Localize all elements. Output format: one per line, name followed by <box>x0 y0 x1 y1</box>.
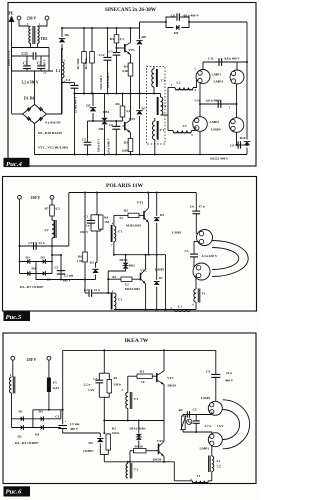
svg-text:0,33: 0,33 <box>53 386 59 390</box>
diode D6 (2) <box>43 271 46 276</box>
svg-text:T'1: T'1 <box>162 104 167 108</box>
svg-text:C8: C8 <box>109 123 113 127</box>
svg-text:R2 330k: R2 330k <box>84 58 88 69</box>
lamp LMP1 top end (2) <box>196 233 199 235</box>
resistor R3 <box>122 133 133 155</box>
inductor L1 (3) <box>209 445 221 481</box>
wire from right terminal to TR1 <box>38 20 48 26</box>
bottom rail (2) <box>114 309 196 311</box>
resistor R6 <box>115 93 130 122</box>
resistor R5 PTC (3) <box>179 408 186 432</box>
svg-text:T'1: T'1 <box>118 230 123 234</box>
svg-text:L1: L1 <box>217 459 221 463</box>
svg-text:C13: C13 <box>22 52 28 56</box>
wire filter right <box>48 48 50 72</box>
lamp tube outline (3) <box>223 400 250 449</box>
resistor R3 (3) <box>128 370 157 384</box>
svg-text:2,7 n: 2,7 n <box>205 424 212 428</box>
VT2 emitter wire (3) <box>163 457 165 462</box>
wire lamp4 bottom <box>236 132 238 145</box>
svg-text:DIAC: DIAC <box>120 258 129 262</box>
wire VT1 collector <box>130 28 132 43</box>
svg-text:D8: D8 <box>142 35 147 39</box>
svg-text:LMP1: LMP1 <box>201 396 211 400</box>
rail jog <box>139 22 141 28</box>
wire T1 II to L-node <box>161 114 169 116</box>
svg-text:R1 330k: R1 330k <box>76 58 80 69</box>
inductor L2 <box>168 81 198 90</box>
svg-text:L2: L2 <box>45 228 49 232</box>
svg-text:10: 10 <box>141 380 145 384</box>
T1 winding II <box>157 94 167 116</box>
svg-text:230 V: 230 V <box>27 16 37 21</box>
svg-text:MJE13001: MJE13001 <box>126 224 142 228</box>
frame of Рис.6 schematic <box>3 333 256 484</box>
capacitor C4 electrolytic <box>66 78 79 155</box>
bottom minus rail (2) <box>36 274 96 280</box>
transformer T''1 (3) <box>126 462 139 479</box>
inductor L1 <box>56 49 66 114</box>
wire lamp3-lamp4 column <box>236 84 238 118</box>
svg-text:TR1: TR1 <box>41 37 48 41</box>
divider out (3) <box>100 454 108 456</box>
svg-text:POLARIS 11W: POLARIS 11W <box>106 183 144 189</box>
left top rail riser (3) <box>62 350 64 409</box>
diode D10 <box>244 142 250 146</box>
svg-text:R7: R7 <box>44 207 48 211</box>
svg-text:R1: R1 <box>112 275 116 279</box>
svg-text:IKEA 7W: IKEA 7W <box>125 338 149 344</box>
svg-text:150 k: 150 k <box>112 431 120 435</box>
svg-text:0,68: 0,68 <box>122 69 128 73</box>
transistor VT2 (3) <box>153 439 164 461</box>
wire bridge to C1 node (2) <box>52 254 61 256</box>
svg-text:DB3: DB3 <box>99 127 106 131</box>
svg-text:L3: L3 <box>183 124 187 128</box>
svg-text:C6: C6 <box>190 205 194 209</box>
wire filter top <box>12 47 50 49</box>
svg-text:22 n: 22 n <box>39 241 45 245</box>
midpoint wire (2) <box>114 254 166 256</box>
lamp LMP1 bottom end (3) <box>208 433 222 447</box>
diac DB1 DB3 <box>99 94 110 155</box>
svg-text:100 n 275 V: 100 n 275 V <box>7 50 11 66</box>
T1 winding I <box>152 67 166 94</box>
transformer T1 (2) <box>192 275 206 309</box>
svg-text:6,8 n 400 V: 6,8 n 400 V <box>225 57 241 61</box>
resistor R4 (2) <box>98 215 109 231</box>
svg-text:Рис.4: Рис.4 <box>6 161 22 168</box>
transistor VT2 <box>123 117 136 133</box>
svg-text:C12: C12 <box>99 53 105 57</box>
DC rail stub (3) <box>33 409 63 411</box>
node below D6 <box>61 48 63 50</box>
top DC bus <box>62 27 140 29</box>
riser to T1 (3) <box>173 462 175 481</box>
svg-text:SINECAN5 2x 26-30W: SINECAN5 2x 26-30W <box>105 7 157 13</box>
svg-text:D1...D7 1N4007: D1...D7 1N4007 <box>20 285 44 289</box>
svg-text:D5...D10 BA159: D5...D10 BA159 <box>38 131 62 135</box>
capacitor C9 <box>237 144 248 146</box>
lamp LMP2 end <box>193 117 208 132</box>
diode D6 <box>59 27 69 49</box>
svg-text:D2: D2 <box>160 213 164 217</box>
wire mains to bridge left <box>12 113 23 115</box>
lamp LMP4 end <box>229 118 244 133</box>
transformer T'1 (3) <box>122 376 139 420</box>
svg-text:4 x BA159: 4 x BA159 <box>45 121 61 125</box>
svg-text:+: + <box>68 82 70 86</box>
resistor R2 <box>90 27 95 94</box>
T1 winding III <box>152 118 164 155</box>
transistor VT2 (2) <box>140 269 147 284</box>
svg-text:D1: D1 <box>19 410 23 414</box>
left rail riser (2) <box>68 193 70 247</box>
svg-text:0,68: 0,68 <box>122 149 128 153</box>
svg-text:LMP2: LMP2 <box>210 120 220 124</box>
wire filter bottom <box>12 70 54 72</box>
lamp tube outline (2) <box>212 241 248 277</box>
svg-text:R2: R2 <box>112 426 116 430</box>
inductor L3 <box>168 124 197 133</box>
svg-text:D3: D3 <box>26 256 30 260</box>
svg-text:DK50: DK50 <box>153 457 162 461</box>
svg-text:3,3: 3,3 <box>120 37 125 41</box>
svg-text:D1-D4: D1-D4 <box>24 97 34 101</box>
svg-text:R4: R4 <box>124 65 128 69</box>
svg-text:R5: R5 <box>179 408 183 412</box>
wire filter left <box>11 48 13 72</box>
diac DIAC DB3 (2) <box>107 255 135 293</box>
svg-text:C3: C3 <box>37 62 42 66</box>
svg-text:T1: T1 <box>197 474 201 478</box>
svg-text:T'1: T'1 <box>160 128 165 132</box>
capacitor C3 (2) <box>184 242 217 268</box>
svg-text:T'1: T'1 <box>161 79 166 83</box>
svg-text:D1: D1 <box>90 261 94 265</box>
glow starter (3) <box>187 419 192 424</box>
svg-text:230 V: 230 V <box>27 357 37 362</box>
svg-text:Рис.5: Рис.5 <box>6 314 22 321</box>
capacitor C8 <box>109 120 121 155</box>
svg-text:D4: D4 <box>35 433 39 437</box>
svg-text:DK50: DK50 <box>168 384 177 388</box>
svg-text:D3: D3 <box>39 410 43 414</box>
capacitor C3 <box>37 56 45 71</box>
label Рис.4 <box>4 158 30 168</box>
svg-text:7,5: 7,5 <box>217 465 221 469</box>
wire from left terminal to TR1 <box>19 20 30 26</box>
wire lamp1-lamp2 column <box>199 84 201 117</box>
svg-text:22 n: 22 n <box>226 371 232 375</box>
diode D5 <box>86 93 96 123</box>
svg-text:230 V: 230 V <box>31 195 41 200</box>
resistor R4 <box>122 55 133 94</box>
svg-text:D7: D7 <box>159 276 163 280</box>
svg-text:2,2 n 500 V: 2,2 n 500 V <box>43 59 47 74</box>
svg-text:R4: R4 <box>104 216 108 220</box>
wire lamp2 bottom to bus <box>199 131 201 154</box>
right rail <box>246 22 248 140</box>
node VT1 base <box>116 47 118 49</box>
svg-text:1 M: 1 M <box>77 259 83 263</box>
top rail (2) <box>69 192 197 194</box>
svg-text:D2: D2 <box>18 435 22 439</box>
bottom bus <box>35 154 248 156</box>
diode D5 (3) <box>89 433 104 455</box>
svg-text:0,5: 0,5 <box>56 207 60 211</box>
lamp LMP3 end <box>230 62 244 84</box>
label Рис.6 <box>4 486 31 496</box>
svg-text:C5: C5 <box>82 138 86 142</box>
diode D9 <box>166 22 189 35</box>
capacitor C11 <box>218 58 220 66</box>
lamp LMP1 top end (3) <box>208 401 222 415</box>
wire VT1 emitter (2) <box>148 223 150 255</box>
svg-text:VT2: VT2 <box>129 117 136 121</box>
capacitor C1 (2) <box>80 215 95 234</box>
svg-text:C3: C3 <box>184 249 188 253</box>
top right rail <box>140 21 167 23</box>
svg-text:R5: R5 <box>110 37 114 41</box>
svg-text:C1: C1 <box>55 415 59 419</box>
left mains wire (2) <box>19 199 21 273</box>
svg-text:C2: C2 <box>84 288 88 292</box>
terminal 230V left (2) <box>18 195 22 199</box>
top rail (3) <box>63 349 216 351</box>
svg-text:6,8 n 1000 V: 6,8 n 1000 V <box>106 71 110 88</box>
svg-text:VT1...VT2 BUL38D: VT1...VT2 BUL38D <box>38 146 68 150</box>
PE terminal <box>9 12 15 114</box>
svg-text:3,2 n 500 V: 3,2 n 500 V <box>22 81 40 85</box>
VT1 emitter wire (3) <box>163 385 165 421</box>
svg-text:R3: R3 <box>124 141 128 145</box>
resistor R1 (2) <box>108 275 140 286</box>
capacitor C7 (2) <box>20 241 53 250</box>
svg-text:22 mk 400 V: 22 mk 400 V <box>74 96 78 113</box>
svg-text:C4: C4 <box>206 370 210 374</box>
wire VT2 collector (2) <box>145 255 147 270</box>
label Рис.5 <box>4 312 31 322</box>
mid rail (3) <box>104 420 164 422</box>
capacitor C8 snubber <box>166 13 199 22</box>
svg-text:MJE13003: MJE13003 <box>125 287 141 291</box>
divider feed (2) <box>96 193 98 215</box>
transformer T'1 winding A (2) <box>111 215 123 254</box>
svg-text:100 n 63 V: 100 n 63 V <box>96 138 100 152</box>
VT2 collector wire (3) <box>163 421 165 442</box>
resistor R6 (2) <box>77 193 88 280</box>
svg-text:LMP1: LMP1 <box>212 73 222 77</box>
wire C11 row <box>203 61 247 63</box>
transformer T1 dashed box <box>147 67 166 145</box>
svg-text:D1...D4 1N4007: D1...D4 1N4007 <box>15 441 39 445</box>
bridge mid vertical (2) <box>35 262 37 274</box>
svg-text:D10: D10 <box>240 136 246 140</box>
midpoint riser to L1 (2) <box>165 255 167 310</box>
svg-text:LMP1: LMP1 <box>155 268 165 272</box>
resistor R7 fuse <box>44 199 60 216</box>
wire TR1 left bottom <box>30 44 32 48</box>
DC plus vertical (2) <box>60 255 62 280</box>
capacitor C2 (2) <box>84 280 114 297</box>
transformer TR1 <box>27 23 48 44</box>
lamp LMP1 bottom end (2) <box>193 263 210 280</box>
resistor R5 (2) <box>114 209 144 221</box>
svg-text:6,8 n 400 V: 6,8 n 400 V <box>206 99 222 103</box>
svg-text:330 k: 330 k <box>114 383 122 387</box>
wire VT2 collector <box>130 94 132 121</box>
mid rail <box>75 93 161 95</box>
diac DIAC DB3 (3) <box>130 421 146 452</box>
svg-text:VT1: VT1 <box>137 201 144 205</box>
svg-text:DIAC DB3: DIAC DB3 <box>130 427 146 431</box>
diode D4 (2) <box>20 273 53 275</box>
svg-text:1 kV: 1 kV <box>217 424 224 428</box>
svg-text:D7: D7 <box>142 107 147 111</box>
lower rail <box>88 120 123 122</box>
svg-text:LMP4: LMP4 <box>211 128 221 132</box>
bridge verticals (3) <box>11 419 13 428</box>
terminal 230V left (3) <box>11 356 15 360</box>
svg-text:47 n: 47 n <box>199 205 205 209</box>
transistor VT1 <box>117 43 136 55</box>
resistor R1 (3) <box>107 373 121 397</box>
bridge rectifier D1-D4 <box>23 105 47 124</box>
resistor R5 <box>110 27 124 48</box>
svg-text:C7: C7 <box>28 241 32 245</box>
bridge top row (3) <box>12 418 61 420</box>
bridge bottom row (3) <box>12 427 61 429</box>
wire bridge bottom to gnd bus <box>34 124 36 155</box>
capacitor C1 <box>23 56 31 71</box>
svg-text:2,2 mk: 2,2 mk <box>64 274 74 278</box>
terminal 230V left <box>17 16 21 20</box>
svg-text:T1: T1 <box>202 292 206 296</box>
svg-text:D5: D5 <box>41 256 45 260</box>
frame of Рис.5 schematic <box>3 177 257 312</box>
resistor R4 (3) <box>130 444 159 462</box>
svg-text:D5: D5 <box>89 441 93 445</box>
svg-text:400 V: 400 V <box>225 379 234 383</box>
svg-text:R1: R1 <box>114 376 118 380</box>
svg-text:PE: PE <box>9 12 14 16</box>
svg-text:L1: L1 <box>178 305 182 309</box>
svg-text:R5: R5 <box>124 209 128 213</box>
svg-text:5,1: 5,1 <box>125 282 129 286</box>
svg-text:LMP3: LMP3 <box>214 80 224 84</box>
svg-text:1,5 mk: 1,5 mk <box>70 422 80 426</box>
diode D8 <box>136 22 146 94</box>
transformer T1 output (3) <box>174 474 212 486</box>
svg-text:C2: C2 <box>93 377 97 381</box>
svg-text:C10: C10 <box>195 99 201 103</box>
terminal 230V right (2) <box>50 195 54 199</box>
svg-text:331K 500 V: 331K 500 V <box>99 74 103 90</box>
svg-text:C1: C1 <box>23 62 28 66</box>
capacitor C2 (3) <box>84 373 104 397</box>
svg-text:T'1: T'1 <box>134 468 139 472</box>
svg-text:DB1: DB1 <box>103 110 110 114</box>
wire VT2 emitter (2) <box>145 284 147 310</box>
starter block top wire (3) <box>183 412 212 415</box>
diode D7 (2) <box>154 255 163 310</box>
svg-text:400 V: 400 V <box>70 427 79 431</box>
svg-text:1 n: 1 n <box>85 224 89 228</box>
fuse F1 <box>47 360 59 410</box>
svg-text:R6: R6 <box>78 255 82 259</box>
transistor VT1 (2) <box>137 201 149 223</box>
inductor L1 (2) <box>174 310 191 312</box>
svg-text:C8: C8 <box>171 14 175 18</box>
capacitor C1 electrolytic (2) <box>57 270 65 272</box>
wire T1-II node to L2 <box>167 88 169 116</box>
divider feed (3) <box>103 350 105 373</box>
svg-text:VT1: VT1 <box>128 48 135 52</box>
capacitor C7 <box>109 48 121 94</box>
svg-text:L1: L1 <box>56 69 60 73</box>
diode D2 (2) <box>154 193 165 256</box>
capacitor C13 <box>12 52 50 60</box>
frame of Рис.4 schematic <box>8 3 256 167</box>
lamp LMP1 end <box>196 62 210 84</box>
svg-text:C11: C11 <box>208 57 214 61</box>
svg-text:2,2 n: 2,2 n <box>84 383 91 387</box>
svg-text:VT1: VT1 <box>167 376 174 380</box>
wire TR1 right bottom <box>37 44 39 48</box>
svg-text:C7: C7 <box>109 50 113 54</box>
capacitor C4 (3) <box>206 350 234 401</box>
wire bridge right to DC rail <box>47 49 62 114</box>
svg-text:D6: D6 <box>65 33 70 37</box>
svg-text:C9: C9 <box>230 143 234 147</box>
svg-text:Рис.6: Рис.6 <box>6 488 22 495</box>
transistor VT1 (3) <box>157 371 176 388</box>
svg-text:D4: D4 <box>32 267 36 271</box>
svg-text:0,022J 400 V: 0,022J 400 V <box>210 157 229 161</box>
wire L1 to C4 <box>61 82 63 84</box>
svg-text:LMP1: LMP1 <box>200 447 210 451</box>
svg-text:+: + <box>64 420 66 424</box>
resistor R2 (3) <box>106 426 119 454</box>
svg-text:3,3 n 630 V: 3,3 n 630 V <box>202 254 218 258</box>
svg-text:5,1: 5,1 <box>119 216 123 220</box>
svg-text:T'1: T'1 <box>134 397 139 401</box>
transformer T'1 winding B (2) <box>111 290 123 310</box>
svg-text:L2: L2 <box>177 81 181 85</box>
svg-text:LMP1: LMP1 <box>172 231 182 235</box>
starter block cap (3) <box>186 411 188 417</box>
svg-text:1N4007: 1N4007 <box>83 449 94 453</box>
svg-text:22 n: 22 n <box>94 288 100 292</box>
svg-text:R6: R6 <box>115 102 119 106</box>
svg-text:T'1: T'1 <box>118 298 123 302</box>
svg-text:1 kV: 1 kV <box>88 388 95 392</box>
starter block bottom wire (3) <box>183 432 212 436</box>
svg-text:68 n 400 V: 68 n 400 V <box>184 14 200 18</box>
bottom rail (3) <box>104 461 174 463</box>
terminal 230V right (3) <box>47 356 51 360</box>
svg-text:F1: F1 <box>53 381 57 385</box>
capacitor C5 <box>82 121 91 155</box>
diode D5 (2) <box>43 259 46 264</box>
capacitor C6 (2) <box>190 193 205 234</box>
capacitor C1 electrolytic (3) <box>55 410 100 433</box>
capacitor C12 <box>99 27 112 94</box>
diode D3 <box>20 261 53 263</box>
svg-text:3,3: 3,3 <box>126 109 130 113</box>
diode D1 (2) <box>90 261 99 280</box>
